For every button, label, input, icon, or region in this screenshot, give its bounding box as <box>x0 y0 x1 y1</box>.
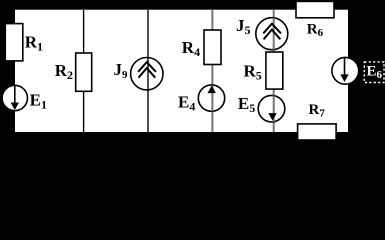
resistor R2 <box>76 53 92 91</box>
resistor R7 <box>298 124 337 140</box>
voltage source E1 <box>2 85 27 110</box>
label E6 (selected, inverse) <box>364 62 384 83</box>
resistor R6 <box>296 1 334 17</box>
resistor R1 <box>5 24 23 61</box>
wire branch 3 (J3) <box>147 10 149 132</box>
resistor R4 <box>204 30 221 65</box>
current source J3 <box>131 57 163 89</box>
circuit canvas (outer loop interior) <box>15 10 348 132</box>
voltage source E5 <box>258 95 285 122</box>
wire branch 5 (J5 R5 E5) <box>273 10 275 132</box>
resistor R5 <box>266 52 283 89</box>
voltage source E6 <box>332 57 359 84</box>
wire branch 2 (R2) <box>83 10 85 132</box>
voltage source E4 <box>198 85 224 111</box>
current source J5 <box>256 18 288 50</box>
wire branch 4 (R4 E4) <box>211 10 213 132</box>
